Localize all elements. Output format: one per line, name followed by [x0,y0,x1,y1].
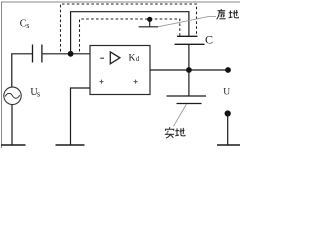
capacitor C top plate [177,35,198,37]
amp triangle symbol [110,52,120,64]
label 虚地 (hand-drawn glyphs) [217,9,239,19]
地 [175,128,185,136]
sine wave inside source [5,93,19,98]
lower right terminal dot [225,110,231,116]
wire: Cs to amp inverting input [42,53,90,55]
capacitor Cs plates [32,45,34,63]
wire: main line corner to Cs left plate [11,53,32,55]
earth ground bar 1 [167,95,207,97]
ground bar under source [1,144,26,146]
op-amp U1 box [90,46,150,95]
svg-text:K: K [129,53,136,63]
实 [165,127,174,138]
leader line to 实地 label [174,104,187,126]
ground bar right terminal [217,144,240,146]
wire: C bottom plate down to output line [188,44,190,70]
svg-text:d: d [136,55,140,63]
wire: feedback loop from node A up over to capacitor C [71,12,189,54]
虚 [217,9,226,19]
wire: output line [150,69,228,71]
plus sign (output polarity) [134,80,138,84]
junction dot at C bottom [186,67,192,73]
outer guard shield dashed box [61,4,197,52]
label 实地 (hand-drawn glyphs) [165,127,185,138]
voltage source Us circle [4,87,21,104]
inner guard shield dashed box [80,19,180,52]
wire: source bottom to ground bar [11,105,13,146]
wire: non-inverting input [71,88,91,145]
wire: source up to main line [11,54,13,88]
virtual ground node dot on shield [147,17,152,22]
svg-text:s: s [26,21,29,30]
svg-text:U: U [223,88,230,98]
virtual ground tick stub [149,19,151,27]
minus sign (inverting input) [100,57,104,59]
virtual ground crossbar [139,26,158,28]
wire: output node down to earth [188,70,190,96]
svg-text:s: s [37,89,40,98]
earth ground bar 2 [177,103,202,105]
地 [229,10,239,18]
node A junction dot [68,51,74,57]
output terminal dot [225,67,231,73]
wire: lower terminal to ground bar [227,114,229,146]
svg-text:C: C [205,32,213,46]
capacitor C bottom plate [175,43,205,45]
plus sign (non-inverting input) [100,80,104,84]
leader line to 虚地 label [158,16,216,26]
ground bar under + input [56,144,85,146]
